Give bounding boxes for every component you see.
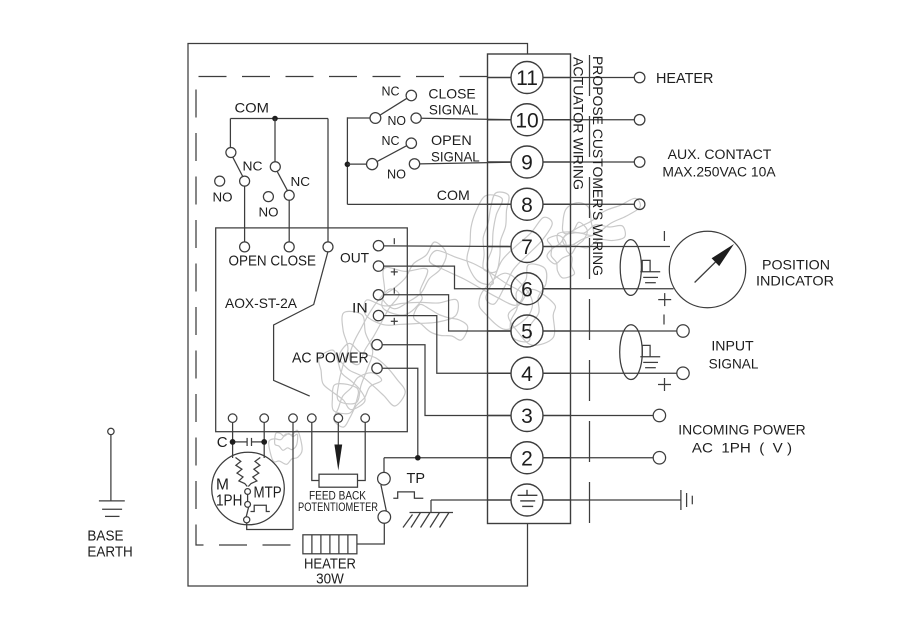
svg-text:9: 9 — [521, 152, 533, 175]
svg-text:SIGNAL: SIGNAL — [429, 102, 479, 118]
svg-text:3: 3 — [521, 405, 533, 428]
terminal 11 — [488, 62, 571, 94]
wire terminal 2 incoming power — [571, 452, 666, 464]
terminal 8 — [488, 188, 571, 220]
node capacitor right — [261, 439, 267, 445]
svg-text:ACTUATOR WIRING: ACTUATOR WIRING — [571, 57, 587, 190]
pin M3 (MTP return) — [289, 414, 298, 530]
terminal 7 — [488, 231, 571, 263]
wire terminal 5 to input signal — [571, 325, 690, 337]
wire microswitch common bus — [346, 117, 348, 204]
pin P2 (pot wiper) — [334, 414, 343, 446]
position indicator meter — [669, 231, 745, 307]
svg-text:HEATER: HEATER — [304, 557, 356, 573]
wire heater to TP — [357, 523, 384, 544]
terminal 10 — [488, 104, 571, 136]
wire heater circuit terminal 11 — [571, 72, 645, 83]
svg-text:AC 1PH ( V ): AC 1PH ( V ) — [692, 440, 792, 456]
dashed actuator boundary — [196, 77, 488, 546]
wire TP to terminal 2 — [384, 457, 512, 459]
label INPUT SIGNAL — [709, 338, 759, 372]
svg-text:OUT: OUT — [340, 250, 370, 266]
svg-text:MTP: MTP — [254, 485, 282, 502]
label IN — [352, 300, 368, 316]
pin OUT minus — [373, 241, 511, 251]
label OUT — [340, 250, 370, 266]
svg-text:1PH: 1PH — [216, 493, 242, 510]
label TP — [407, 470, 426, 487]
svg-text:30W: 30W — [316, 572, 344, 588]
label OPEN CLOSE — [229, 253, 317, 270]
node TP junction — [415, 455, 421, 461]
pin IN plus — [373, 310, 511, 373]
polarity mark IN plus — [391, 318, 398, 325]
svg-text:EARTH: EARTH — [87, 545, 132, 561]
pin OUT plus — [373, 261, 511, 289]
terminal numbers — [515, 67, 538, 470]
connector shield ellipse (input) — [620, 325, 643, 380]
label PROPOSE CUSTOMER'S WIRING — [590, 56, 606, 276]
wire terminal 6 to indicator — [571, 288, 674, 290]
label NO (open sw) — [387, 167, 406, 182]
node microswitch bus junction — [345, 162, 351, 168]
connector shield ellipse (indicator) — [620, 240, 641, 296]
microswitch OPEN SIGNAL — [347, 138, 511, 170]
svg-text:SIGNAL: SIGNAL — [431, 149, 480, 165]
meter needle arrowhead — [712, 244, 734, 266]
label POSITION INDICATOR — [756, 257, 834, 289]
polarity mark OUT minus — [393, 238, 395, 244]
polarity mark IN minus — [393, 288, 395, 294]
label FEED BACK POTENTIOMETER — [298, 491, 378, 515]
svg-text:AUX. CONTACT: AUX. CONTACT — [668, 147, 772, 162]
label NC (S2) — [291, 174, 311, 189]
pin IN minus — [373, 290, 511, 331]
svg-text:POSITION: POSITION — [762, 257, 830, 273]
label HEATER 30W — [304, 557, 356, 588]
wire aux contact terminal 9 — [571, 157, 645, 168]
base earth electrode — [99, 428, 125, 516]
dashed customers wiring separator — [589, 55, 591, 524]
svg-text:8: 8 — [521, 194, 533, 217]
label INCOMING POWER — [678, 422, 805, 456]
label NC (close sw) — [382, 84, 400, 99]
svg-text:NO: NO — [388, 113, 407, 128]
svg-text:IN: IN — [352, 300, 368, 316]
pin P1 (pot) — [308, 414, 319, 481]
label AC POWER — [292, 351, 369, 367]
capacitor C — [233, 438, 265, 446]
svg-text:NC: NC — [291, 174, 311, 189]
limit switch S1 (left, NC) — [226, 119, 250, 243]
label ACTUATOR WIRING — [571, 57, 587, 190]
svg-text:PROPOSE CUSTOMER'S WIRING: PROPOSE CUSTOMER'S WIRING — [590, 56, 606, 276]
terminal 2 — [488, 442, 571, 474]
wire terminal 3 incoming power — [571, 409, 666, 421]
svg-text:OPEN CLOSE: OPEN CLOSE — [229, 253, 317, 270]
svg-text:SIGNAL: SIGNAL — [709, 356, 759, 372]
svg-text:C: C — [217, 434, 228, 451]
switch TP — [378, 458, 424, 524]
label COM (left) — [235, 100, 270, 116]
node capacitor left — [230, 439, 236, 445]
internal contact arm — [274, 251, 328, 396]
terminal 9 — [488, 146, 571, 178]
microswitch CLOSE SIGNAL — [347, 90, 511, 123]
svg-text:6: 6 — [521, 278, 533, 301]
svg-text:NO: NO — [259, 205, 279, 220]
contact NO (S2 unconnected) — [263, 192, 273, 202]
pin AC POWER L — [372, 340, 512, 416]
node COM junction — [272, 116, 278, 122]
label COM (right) — [437, 187, 470, 203]
svg-text:NO: NO — [387, 167, 406, 182]
feedback potentiometer RP — [319, 474, 358, 487]
polarity plus (indicator) — [658, 293, 671, 306]
wire terminal 4 to input signal — [571, 367, 690, 379]
label NC (S1) — [243, 159, 263, 174]
wire ground terminal to external earth — [571, 499, 681, 501]
wire COM to terminal 8 — [347, 203, 511, 205]
svg-text:POTENTIOMETER: POTENTIOMETER — [298, 502, 378, 514]
svg-text:OPEN: OPEN — [431, 132, 472, 148]
svg-text:AC POWER: AC POWER — [292, 351, 369, 367]
svg-text:4: 4 — [521, 363, 533, 386]
label MTP — [254, 485, 282, 502]
pin M2 (motor) — [260, 414, 269, 458]
label C — [217, 434, 228, 451]
svg-text:TP: TP — [407, 470, 426, 487]
wire terminal 7 to indicator — [571, 246, 671, 248]
terminal 5 — [488, 315, 571, 347]
svg-text:AOX-ST-2A: AOX-ST-2A — [225, 295, 298, 311]
svg-text:MAX.250VAC 10A: MAX.250VAC 10A — [662, 165, 775, 180]
wire aux contact terminal 10 — [571, 114, 645, 125]
wiper arrow — [334, 445, 342, 471]
polarity minus (input) — [663, 315, 665, 325]
svg-text:FEED BACK: FEED BACK — [309, 491, 366, 503]
svg-text:COM: COM — [235, 100, 270, 116]
contact NO (S1 unconnected) — [215, 176, 225, 186]
svg-text:11: 11 — [516, 67, 538, 90]
pin M1 (motor) — [228, 414, 237, 458]
label OPEN SIGNAL — [431, 132, 480, 165]
external earth symbol — [681, 490, 692, 510]
label AOX-ST-2A — [225, 295, 298, 311]
svg-text:NC: NC — [382, 84, 400, 99]
actuator enclosure outer border — [188, 44, 528, 587]
terminal 6 — [488, 273, 571, 305]
label NO (S1) — [213, 190, 233, 205]
wire COM to control box third terminal — [327, 119, 329, 243]
label AUX. CONTACT MAX.250VAC 10A — [662, 147, 775, 180]
svg-text:10: 10 — [515, 109, 538, 132]
svg-text:INDICATOR: INDICATOR — [756, 273, 834, 289]
pin AC POWER N — [372, 363, 418, 458]
pin COM (module) — [323, 242, 333, 252]
svg-text:5: 5 — [521, 321, 533, 344]
svg-text:NC: NC — [382, 133, 400, 148]
ground terminal — [488, 484, 571, 516]
label CLOSE SIGNAL — [428, 86, 478, 118]
terminal 4 — [488, 357, 571, 389]
wire COM bus — [230, 118, 328, 120]
label NO (S2) — [259, 205, 279, 220]
svg-text:NO: NO — [213, 190, 233, 205]
svg-text:NC: NC — [243, 159, 263, 174]
pin P3 (pot) — [358, 414, 370, 481]
internal chassis ground — [403, 500, 488, 528]
heater RH 30W — [303, 535, 357, 554]
svg-text:BASE: BASE — [87, 529, 123, 545]
label BASE EARTH — [87, 529, 132, 561]
label M 1PH — [216, 477, 242, 510]
label NO (close sw) — [388, 113, 407, 128]
shield ground (input) — [640, 345, 660, 367]
polarity minus (indicator) — [663, 231, 665, 241]
limit switch S2 (middle, NC) — [270, 119, 294, 243]
control module U1 AOX-ST-2A box — [216, 228, 408, 432]
svg-text:COM: COM — [437, 187, 470, 203]
svg-text:CLOSE: CLOSE — [428, 86, 475, 102]
terminal 3 — [488, 400, 571, 432]
shield ground (indicator) — [640, 260, 660, 282]
polarity plus (input) — [658, 378, 671, 391]
wire aux contact terminal 8 — [571, 199, 645, 210]
terminal block — [488, 54, 571, 524]
label HEATER (right) — [656, 71, 713, 87]
pin CLOSE — [284, 242, 294, 252]
svg-text:7: 7 — [521, 236, 533, 259]
polarity mark OUT plus — [391, 268, 398, 275]
svg-text:2: 2 — [521, 447, 533, 470]
svg-text:INCOMING POWER: INCOMING POWER — [678, 422, 805, 438]
watermark — [269, 192, 641, 464]
pin OPEN — [240, 242, 250, 252]
svg-text:INPUT: INPUT — [711, 338, 754, 354]
motor M 1PH — [212, 452, 285, 525]
svg-text:HEATER: HEATER — [656, 71, 713, 87]
wire motor bottom to pin M3 — [247, 523, 293, 530]
svg-text:M: M — [216, 477, 229, 494]
label NC (open sw) — [382, 133, 400, 148]
thermal protector MTP contacts — [244, 489, 270, 523]
